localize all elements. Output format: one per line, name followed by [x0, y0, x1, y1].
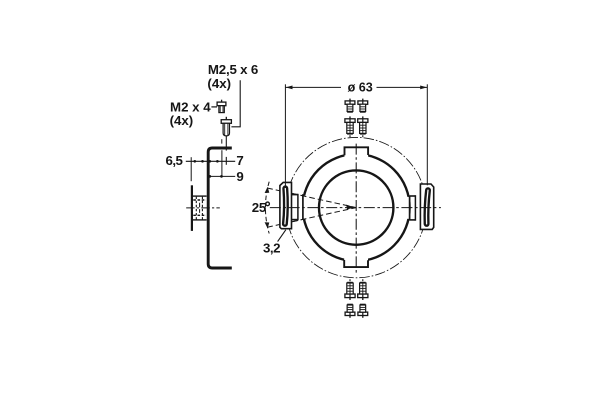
dimension dot 4 — [216, 160, 219, 163]
screw M2.5x6 axis dash below flange — [225, 157, 227, 165]
dia63 dimension line left part — [285, 86, 341, 88]
svg-text:9: 9 — [236, 169, 243, 184]
ring flat mask left — [299, 196, 306, 219]
bushing thread dashed line right — [201, 197, 203, 220]
dia63 arrowhead right — [420, 86, 427, 90]
svg-text:ø 63: ø 63 — [348, 80, 373, 94]
svg-text:(4x): (4x) — [170, 113, 194, 128]
flange ring outer circle — [303, 154, 410, 261]
bottom screw M2x4 left — [345, 304, 355, 318]
mounting bracket plate (side view C-profile) — [208, 148, 232, 268]
bottom screws mirrored group — [345, 279, 368, 318]
bottom screw M2.5x6 right — [358, 279, 368, 300]
right clamp body — [420, 184, 433, 229]
dimension dot 2 — [201, 160, 204, 163]
leader line 3,2 — [278, 230, 286, 242]
bushing centre cross tick — [199, 203, 201, 213]
dimension dot 3 — [208, 160, 211, 163]
svg-text:7: 7 — [236, 153, 243, 168]
dimension dot 5 — [208, 175, 211, 178]
extension line right upper dash — [221, 139, 223, 143]
right neck end edge — [414, 195, 416, 221]
25 deg ray upper gap segment — [292, 193, 307, 196]
25 deg ray centre arrowhead — [346, 205, 355, 210]
top screw M2x4 right — [358, 99, 368, 113]
left neck end edge — [297, 194, 299, 221]
arc arrowhead top — [265, 187, 270, 193]
leader line M2x4 — [211, 106, 217, 108]
right neck lower edge — [410, 219, 416, 221]
dimension line 9 — [209, 175, 235, 177]
flange ring bore circle — [319, 170, 393, 244]
dimension dot 1 — [193, 160, 196, 163]
screw M2.5x6 side view — [221, 117, 231, 136]
dia63 dimension line right part — [377, 86, 428, 88]
25 deg ray lower — [267, 208, 356, 228]
svg-text:3,2: 3,2 — [263, 241, 280, 256]
dia63 extension line left — [284, 84, 286, 188]
threaded bushing body bottom edge — [193, 219, 207, 221]
right clamp slot — [426, 190, 428, 224]
dia63 extension line right — [426, 84, 428, 185]
ring flat chord left — [302, 194, 304, 220]
25 deg dimension arc — [265, 182, 269, 234]
vertical centre line — [355, 144, 357, 274]
bottom screw M2x4 right — [358, 304, 368, 318]
top screw M2.5x6 left — [345, 116, 355, 137]
ring flat mask right — [407, 197, 411, 219]
right neck upper edge — [410, 195, 416, 197]
25 deg ray upper — [267, 188, 356, 208]
dimension line 6,5 / 7 — [186, 160, 235, 162]
bottom screw M2.5x6 left — [345, 279, 355, 300]
bushing thread dashed line upper — [193, 199, 206, 201]
left neck upper edge — [292, 194, 298, 196]
arc arrowhead bottom — [265, 222, 270, 228]
screw M2x4 side view — [217, 100, 226, 113]
label 25 deg — [252, 200, 270, 215]
top screw M2.5x6 right — [358, 116, 368, 137]
bushing flange disc edge — [191, 185, 193, 231]
leader line M2.5x6 — [231, 80, 240, 127]
bottom tab — [344, 258, 368, 267]
screw M2.5x6 axis line through flange — [225, 136, 227, 151]
left clamp body — [280, 182, 292, 228]
extension line right (7/9) — [221, 150, 223, 177]
pitch circle dia 63 dashed — [286, 137, 426, 277]
svg-text:(4x): (4x) — [207, 76, 231, 91]
threaded bushing body top edge — [193, 195, 207, 197]
svg-text:25: 25 — [252, 200, 267, 215]
bushing thread dashed line left — [195, 197, 197, 220]
dia63 arrowhead left — [286, 86, 293, 90]
bushing centre line horizontal — [186, 207, 220, 209]
25 deg ray lower gap segment — [292, 219, 307, 222]
left neck lower edge — [292, 219, 298, 221]
bushing thread dashed line lower — [193, 214, 206, 216]
left clamp slot — [285, 188, 286, 224]
svg-text:6,5: 6,5 — [166, 153, 184, 168]
top tab — [345, 147, 369, 157]
extension line left (6,5) — [190, 157, 192, 181]
dimension dot 6 — [220, 175, 223, 178]
svg-text:M2,5 x 6: M2,5 x 6 — [208, 62, 258, 77]
top screw M2x4 left — [345, 99, 355, 113]
horizontal centre line — [270, 207, 441, 209]
ring flat chord right — [409, 196, 411, 221]
